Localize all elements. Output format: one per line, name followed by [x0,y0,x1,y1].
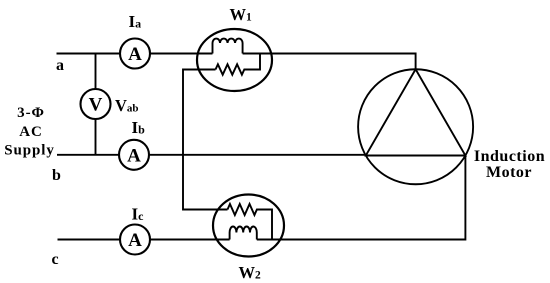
svg-text:V: V [89,95,103,116]
svg-text:b: b [52,167,61,184]
svg-text:Ic: Ic [132,205,145,224]
svg-text:Induction: Induction [474,148,545,165]
svg-text:W1: W1 [230,5,253,24]
svg-text:A: A [127,145,141,166]
svg-text:A: A [128,44,142,65]
svg-text:a: a [56,57,64,74]
svg-text:3-Φ: 3-Φ [17,105,45,121]
svg-text:Motor: Motor [486,164,532,181]
svg-text:A: A [128,230,142,251]
svg-text:W2: W2 [239,263,262,282]
svg-text:c: c [52,251,59,268]
svg-text:Ia: Ia [129,12,142,31]
svg-text:Vab: Vab [115,96,139,115]
svg-text:AC: AC [19,124,42,140]
svg-text:Supply: Supply [4,143,54,159]
svg-text:Ib: Ib [132,118,146,137]
